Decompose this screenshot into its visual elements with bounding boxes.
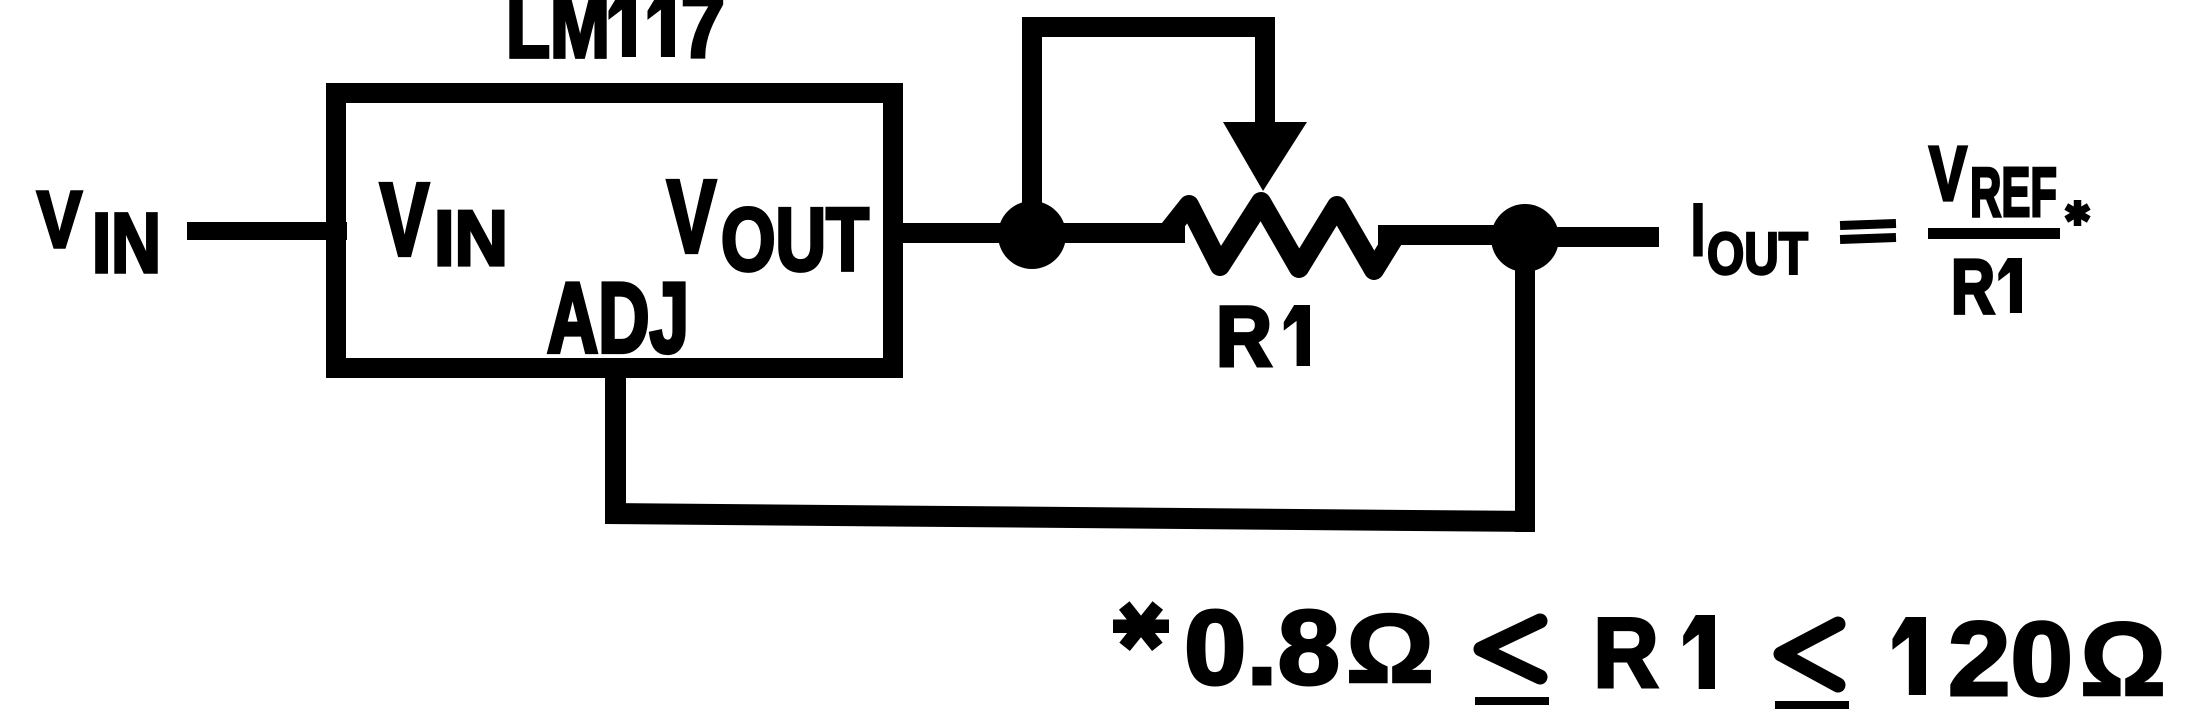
svg-text:OUT: OUT — [1707, 221, 1808, 287]
equals sign — [1840, 219, 1896, 244]
note asterisk star — [1113, 601, 1169, 651]
note less-equal 1 — [1475, 621, 1549, 705]
svg-text:V: V — [667, 159, 716, 274]
fraction bar — [1928, 228, 2060, 239]
svg-text:I: I — [1691, 190, 1705, 271]
svg-text:7: 7 — [681, 0, 725, 77]
svg-text:R: R — [1951, 244, 1995, 330]
svg-text:REF: REF — [1970, 153, 2057, 231]
note value 120 — [1892, 601, 2073, 718]
svg-text:20: 20 — [1948, 601, 2073, 718]
label VREF numerator — [1929, 131, 2057, 231]
svg-text:V: V — [1929, 131, 1967, 217]
asterisk after VREF — [2064, 200, 2090, 226]
svg-text:LM: LM — [506, 0, 610, 77]
svg-text:IN: IN — [434, 194, 508, 282]
wire VOUT to node A — [893, 223, 1033, 243]
wire wiper loop top horizontal — [1022, 17, 1275, 37]
svg-text:0.8: 0.8 — [1184, 589, 1340, 707]
node VIN label — [37, 175, 161, 290]
svg-text:ADJ: ADJ — [547, 262, 689, 373]
wire ADJ bottom horizontal — [605, 503, 1535, 532]
wire VIN input — [187, 222, 347, 240]
svg-text:R: R — [1216, 290, 1272, 385]
svg-text:OUT: OUT — [721, 189, 869, 289]
svg-text:IN: IN — [92, 196, 161, 290]
svg-text:Ω: Ω — [1346, 594, 1434, 703]
wiper arrowhead of R1 — [1223, 122, 1307, 191]
wire wiper loop left vertical — [1022, 17, 1042, 217]
wire node A to resistor — [1031, 223, 1185, 243]
wire ADJ pin vertical — [605, 368, 626, 524]
svg-text:V: V — [380, 162, 429, 277]
wire bottom right vertical to node B — [1515, 244, 1535, 532]
label IOUT — [1691, 190, 1808, 287]
note R1 — [1593, 597, 1715, 708]
wire resistor to node B — [1378, 225, 1529, 245]
node A junction dot — [998, 201, 1066, 269]
svg-text:V: V — [37, 175, 82, 264]
wire wiper loop right vertical — [1255, 17, 1275, 127]
svg-text:Ω: Ω — [2080, 602, 2166, 718]
regulator U1 LM117 box — [336, 93, 893, 368]
resistor R1 zigzag — [1166, 202, 1395, 270]
pin label VOUT inside box — [667, 159, 869, 289]
pin label VIN inside box — [380, 162, 508, 282]
node B junction dot — [1491, 204, 1559, 272]
wire node B to IOUT — [1527, 227, 1659, 247]
note less-equal 2 — [1775, 624, 1849, 709]
svg-text:R: R — [1593, 597, 1659, 708]
